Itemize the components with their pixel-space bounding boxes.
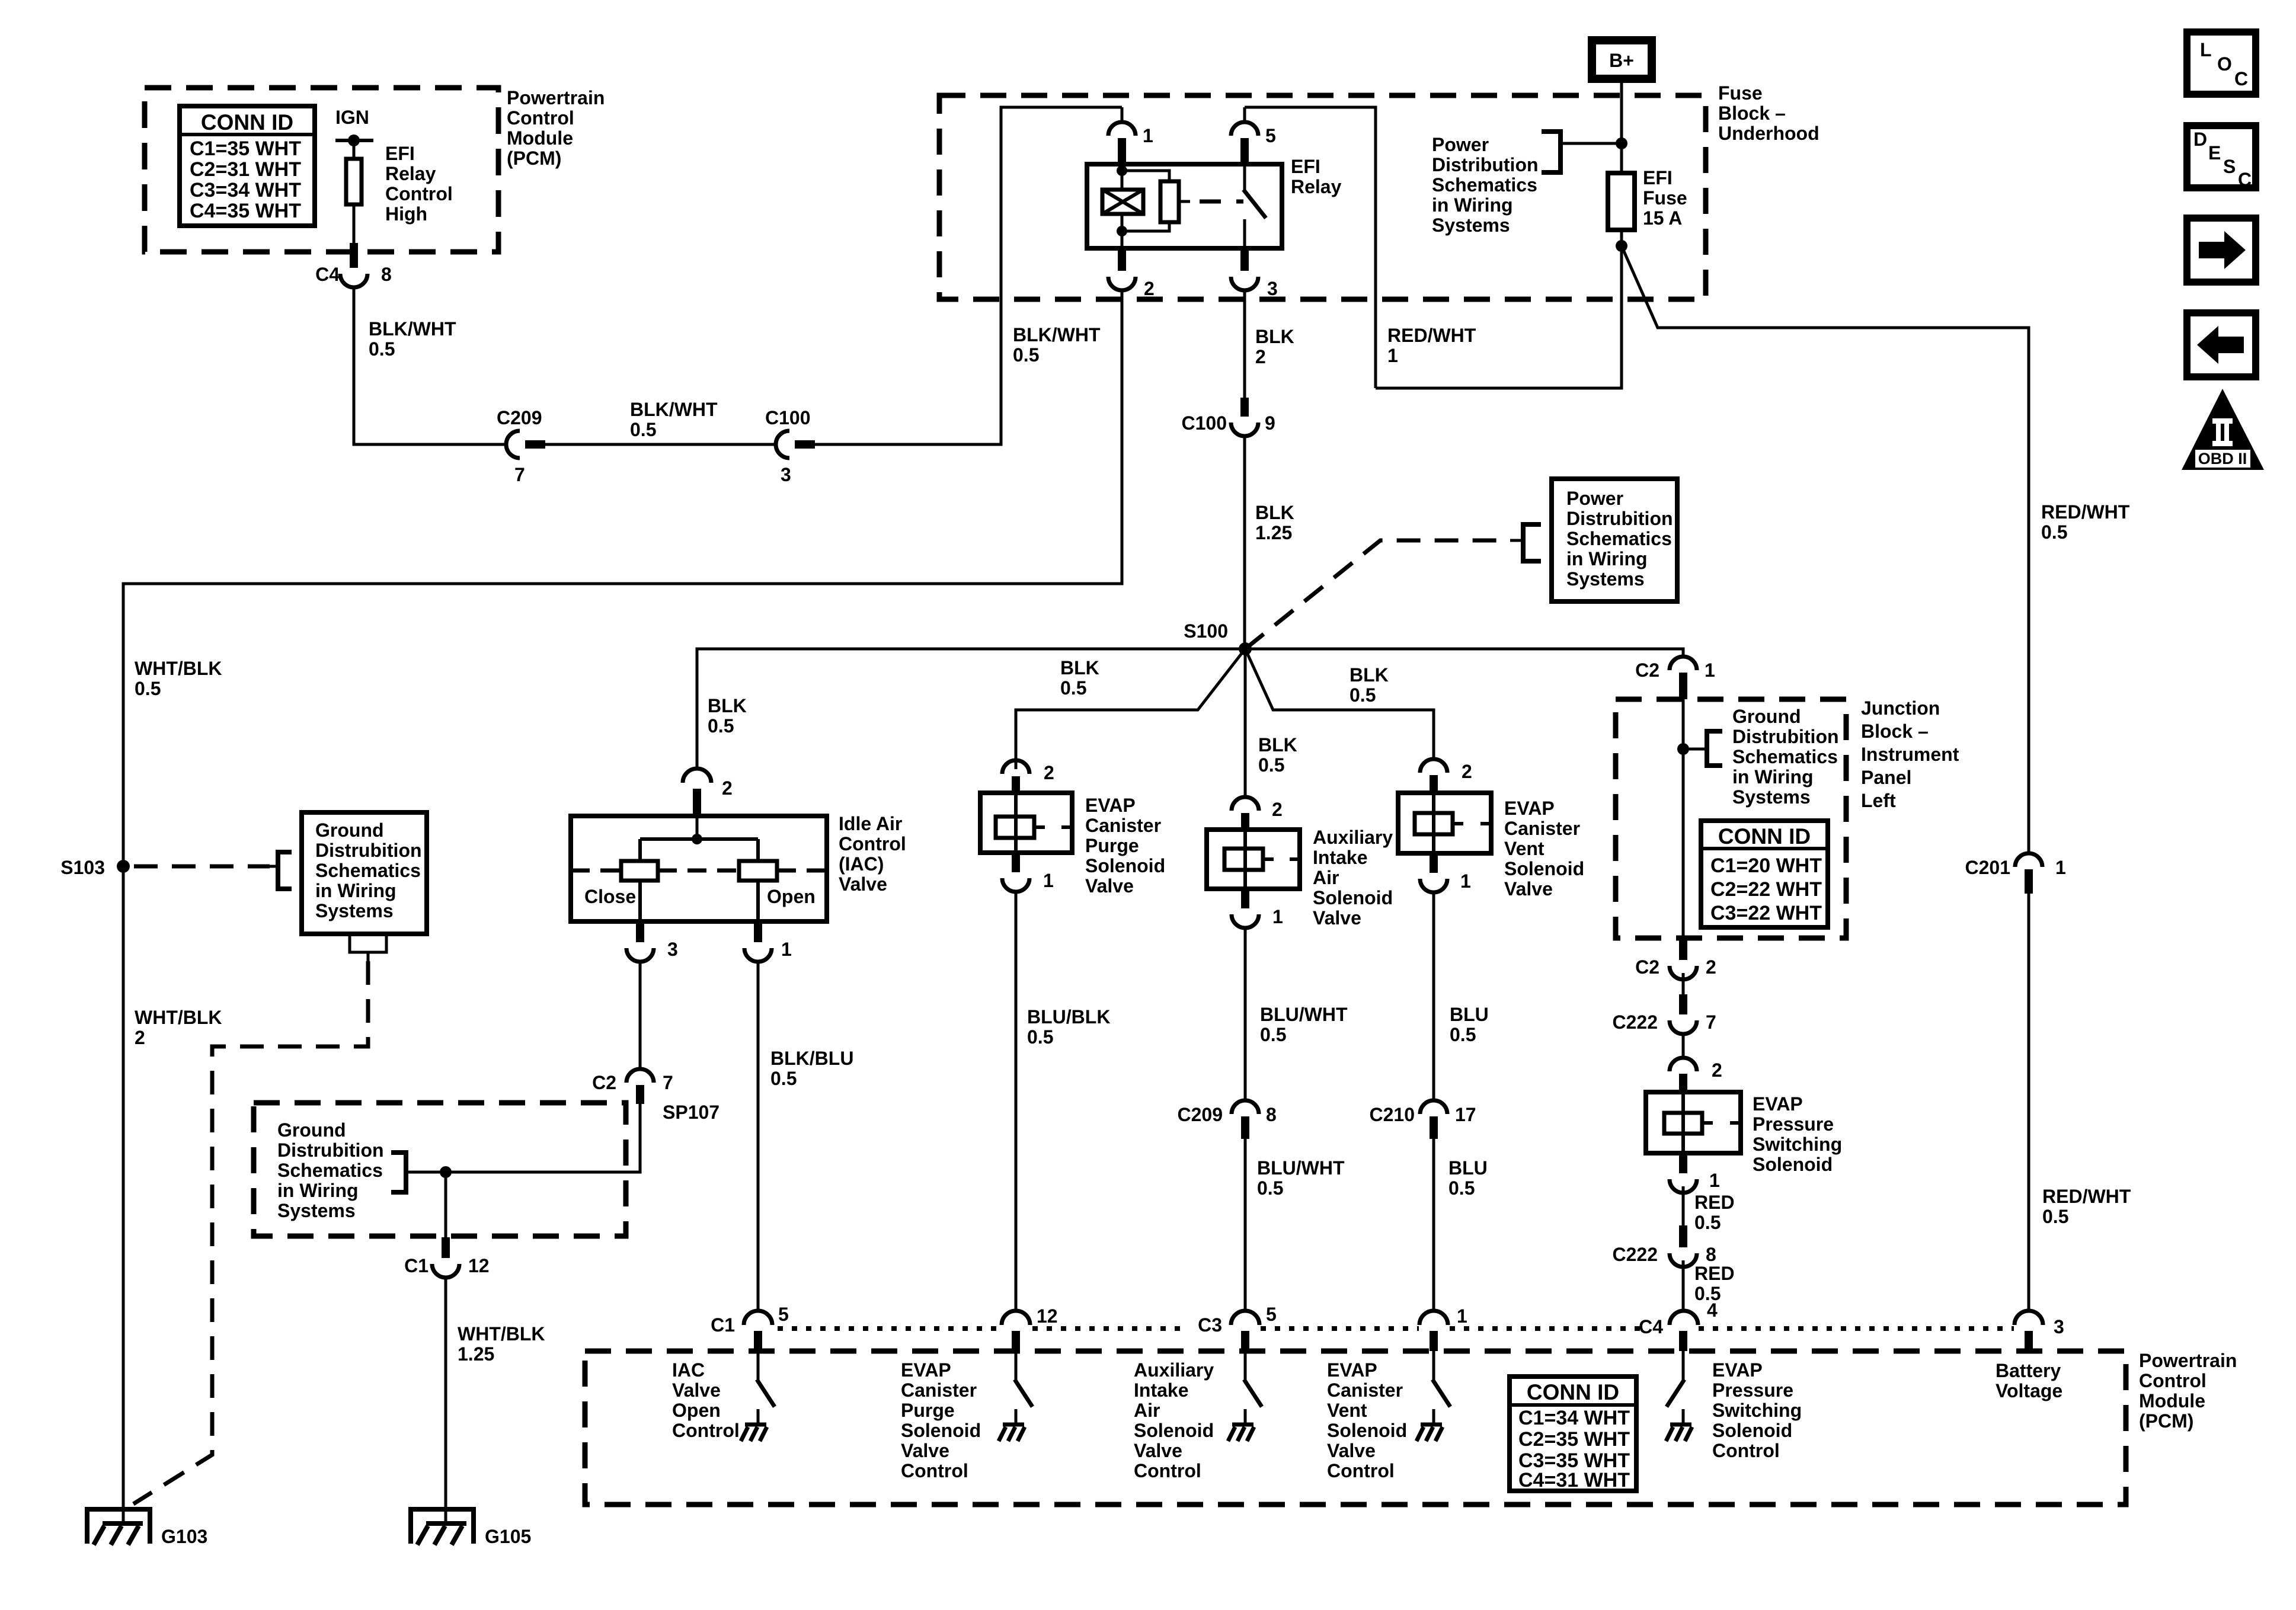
svg-text:Solenoid: Solenoid <box>1313 887 1393 908</box>
svg-text:Control: Control <box>1327 1460 1395 1481</box>
svg-text:IAC: IAC <box>672 1359 705 1381</box>
EFI Relay Control High label <box>385 143 453 225</box>
Idle Air Control (IAC) Valve box <box>571 816 827 921</box>
svg-text:4: 4 <box>1707 1299 1718 1321</box>
svg-text:Relay: Relay <box>1291 176 1342 197</box>
svg-text:3: 3 <box>1267 278 1278 299</box>
svg-text:BLK: BLK <box>708 695 747 716</box>
svg-text:C2=22 WHT: C2=22 WHT <box>1710 878 1822 901</box>
svg-text:S100: S100 <box>1184 620 1228 642</box>
svg-text:Intake: Intake <box>1313 847 1367 868</box>
svg-text:C4=31 WHT: C4=31 WHT <box>1518 1469 1630 1491</box>
BLU/WHT 0.5 label (lower) <box>1257 1157 1345 1199</box>
svg-text:1: 1 <box>1387 345 1398 366</box>
ground (EVAP pressure driver) <box>1666 1425 1692 1441</box>
relay coil (crossed box) <box>1102 190 1143 214</box>
svg-text:EFI: EFI <box>385 143 415 164</box>
svg-text:Distrubition: Distrubition <box>277 1140 384 1161</box>
svg-text:in Wiring: in Wiring <box>277 1180 359 1201</box>
svg-text:in Wiring: in Wiring <box>315 880 396 901</box>
svg-text:BLK/BLU: BLK/BLU <box>770 1048 853 1069</box>
right-arrow icon box <box>2187 218 2256 282</box>
svg-text:Systems: Systems <box>1732 786 1811 808</box>
svg-text:BLU: BLU <box>1450 1004 1489 1025</box>
PCM label (bottom right) <box>2139 1350 2237 1432</box>
RED/WHT 1 label <box>1387 325 1476 366</box>
relay pin 1 connector <box>1121 107 1124 123</box>
wire vent pin1 down <box>1432 892 1435 1101</box>
svg-text:Systems: Systems <box>277 1200 356 1221</box>
wire C100-9 to S100 (BLK 1.25) <box>1243 436 1246 649</box>
svg-text:Switching: Switching <box>1712 1400 1802 1421</box>
svg-text:0.5: 0.5 <box>2041 521 2067 543</box>
bracket for ground note (S103) <box>270 865 278 868</box>
connector C222 pin 8 <box>1679 1225 1687 1247</box>
svg-text:IGN: IGN <box>335 107 369 128</box>
wire RED/WHT 1 loop to fuse output <box>1376 246 1622 388</box>
wire C4-8 down to C209 run <box>354 287 506 444</box>
BLU 0.5 label (upper) <box>1450 1004 1489 1045</box>
svg-text:BLU/WHT: BLU/WHT <box>1260 1004 1348 1025</box>
wire IGN to driver resistor <box>353 140 356 159</box>
connector C210 pin 17 <box>1420 1100 1447 1114</box>
connector C2 pin 7 <box>626 1069 654 1083</box>
svg-text:BLK: BLK <box>1258 734 1297 756</box>
svg-text:0.5: 0.5 <box>369 338 395 360</box>
svg-text:Air: Air <box>1313 867 1339 888</box>
svg-text:C1: C1 <box>404 1255 428 1276</box>
svg-text:2: 2 <box>1255 346 1266 367</box>
svg-text:Valve: Valve <box>839 873 887 895</box>
svg-text:Close: Close <box>584 886 636 907</box>
svg-text:Solenoid: Solenoid <box>1753 1154 1833 1175</box>
wire S100 vent branch <box>1245 649 1434 759</box>
svg-text:Block –: Block – <box>1718 103 1786 124</box>
svg-text:Valve: Valve <box>1313 907 1361 929</box>
svg-text:Control: Control <box>839 833 906 854</box>
svg-text:C2=31 WHT: C2=31 WHT <box>190 158 301 181</box>
svg-text:0.5: 0.5 <box>1013 344 1039 366</box>
svg-text:BLK: BLK <box>1350 664 1389 686</box>
wire S100 purge branch <box>1016 649 1245 769</box>
EVAP Canister Vent Solenoid Valve Control label <box>1327 1359 1407 1481</box>
svg-text:C2=35 WHT: C2=35 WHT <box>1518 1428 1630 1451</box>
svg-text:C100: C100 <box>1182 412 1227 434</box>
svg-text:Block –: Block – <box>1861 721 1929 742</box>
Power Distrubition note box (S100) <box>1552 479 1677 601</box>
svg-text:2: 2 <box>1712 1060 1722 1081</box>
svg-text:Systems: Systems <box>315 900 394 921</box>
svg-text:1: 1 <box>2055 857 2066 878</box>
svg-text:EVAP: EVAP <box>1712 1359 1763 1381</box>
svg-text:Vent: Vent <box>1504 838 1544 859</box>
svg-text:2: 2 <box>1144 278 1155 299</box>
svg-text:Vent: Vent <box>1327 1400 1367 1421</box>
svg-text:0.5: 0.5 <box>1350 684 1376 706</box>
svg-text:Canister: Canister <box>901 1379 977 1401</box>
svg-text:CONN ID: CONN ID <box>201 110 293 135</box>
wire C209-8 to PCM C3-5 <box>1244 1139 1247 1311</box>
BLU 0.5 label (lower) <box>1448 1157 1488 1199</box>
bracket for ground note (junction block) <box>1683 748 1707 751</box>
BLU/WHT 0.5 label (upper) <box>1260 1004 1348 1045</box>
svg-text:0.5: 0.5 <box>1450 1024 1476 1045</box>
PCM pin 3 connector (battery voltage) <box>2014 1311 2043 1325</box>
PCM label (top-left) <box>507 87 605 169</box>
svg-text:BLK/WHT: BLK/WHT <box>1013 324 1101 345</box>
RED/WHT 0.5 label (upper right) <box>2041 501 2130 543</box>
WHT/BLK 2 label <box>135 1007 222 1048</box>
PCM pin C3-1 connector <box>1419 1311 1448 1325</box>
svg-text:C201: C201 <box>1965 857 2011 878</box>
svg-text:8: 8 <box>381 264 392 285</box>
PCM pin C1-12 connector <box>1002 1311 1030 1325</box>
svg-text:Distrubition: Distrubition <box>315 840 422 861</box>
wire resistor to C4 pin 8 <box>353 204 356 243</box>
svg-text:Control: Control <box>1134 1460 1201 1481</box>
wire C209 to C100 <box>545 443 776 446</box>
Powertrain Control Module (PCM) top-left dashed box <box>145 88 498 252</box>
svg-text:0.5: 0.5 <box>1257 1177 1283 1199</box>
svg-text:EVAP: EVAP <box>1327 1359 1377 1381</box>
node junction block splice <box>1677 743 1689 755</box>
svg-text:EFI: EFI <box>1291 156 1320 177</box>
LOC icon box <box>2187 32 2256 94</box>
svg-text:Schematics: Schematics <box>1566 528 1672 549</box>
svg-text:C4=35 WHT: C4=35 WHT <box>190 200 301 222</box>
svg-text:Instrument: Instrument <box>1861 744 1959 765</box>
Auxiliary Intake Air Solenoid Valve box <box>1207 830 1300 889</box>
svg-text:0.5: 0.5 <box>1694 1212 1721 1233</box>
svg-text:Canister: Canister <box>1504 818 1580 839</box>
aux intake solenoid pin 2 connector <box>1232 797 1259 811</box>
CONN ID table (bottom PCM) <box>1510 1377 1636 1491</box>
svg-text:Voltage: Voltage <box>1996 1380 2062 1401</box>
svg-text:9: 9 <box>1265 412 1275 434</box>
IAC valve pin 2 connector <box>683 769 711 783</box>
svg-text:EVAP: EVAP <box>1753 1093 1803 1115</box>
svg-text:Power: Power <box>1566 488 1623 509</box>
svg-text:15 A: 15 A <box>1643 207 1682 229</box>
node S100 <box>1239 642 1252 655</box>
ground G103 <box>85 1509 152 1545</box>
svg-text:RED: RED <box>1694 1263 1735 1284</box>
svg-text:1: 1 <box>781 939 792 960</box>
svg-text:RED/WHT: RED/WHT <box>1387 325 1476 346</box>
svg-text:Powertrain: Powertrain <box>2139 1350 2237 1371</box>
PCM pin C1-5 connector <box>744 1311 772 1325</box>
EVAP pressure switching solenoid pin 2 connector <box>1670 1058 1697 1071</box>
BLK/WHT 0.5 label (C209 to C100) <box>630 399 718 440</box>
svg-text:0.5: 0.5 <box>1260 1024 1286 1045</box>
svg-text:G105: G105 <box>485 1526 531 1547</box>
svg-text:Solenoid: Solenoid <box>1085 855 1165 876</box>
svg-text:C4: C4 <box>1639 1316 1663 1337</box>
wire C2-1 through junction block <box>1682 699 1685 938</box>
Auxiliary Intake Air Solenoid Valve Control label <box>1134 1359 1214 1481</box>
svg-text:Systems: Systems <box>1432 215 1510 236</box>
svg-text:0.5: 0.5 <box>1060 677 1086 699</box>
svg-text:Idle Air: Idle Air <box>839 813 902 834</box>
svg-text:Ground: Ground <box>1732 706 1801 727</box>
svg-text:C2: C2 <box>1635 956 1659 978</box>
svg-text:0.5: 0.5 <box>770 1068 797 1089</box>
CONN ID table (PCM top-left) <box>180 106 315 226</box>
svg-text:Solenoid: Solenoid <box>901 1420 981 1441</box>
svg-text:G103: G103 <box>161 1526 207 1547</box>
svg-text:5: 5 <box>1266 1304 1277 1325</box>
svg-text:Open: Open <box>672 1400 721 1421</box>
connector C1 pin 12 <box>442 1237 450 1258</box>
CONN ID table (junction block) <box>1701 821 1828 927</box>
PCM driver switch (purge) <box>1015 1351 1018 1381</box>
wire IAC pin3 to C2-7 <box>639 961 642 1070</box>
wire fuse output diagonal to right margin (RED/WHT 0.5) <box>1622 246 2029 853</box>
connector C4 pin 8 (PCM) <box>350 243 358 268</box>
svg-text:7: 7 <box>1706 1012 1716 1033</box>
svg-text:CONN ID: CONN ID <box>1527 1380 1619 1404</box>
svg-text:17: 17 <box>1455 1104 1476 1125</box>
svg-text:Fuse: Fuse <box>1643 187 1687 209</box>
svg-text:Control: Control <box>1712 1440 1780 1461</box>
EVAP purge solenoid pin 2 connector <box>1002 760 1029 774</box>
svg-text:1.25: 1.25 <box>1255 522 1292 543</box>
svg-text:RED/WHT: RED/WHT <box>2041 501 2130 523</box>
svg-text:1: 1 <box>1709 1170 1720 1191</box>
linkage dash <box>1200 200 1221 204</box>
ground (aux intake driver) <box>1228 1425 1254 1441</box>
svg-text:(PCM): (PCM) <box>2139 1410 2193 1432</box>
svg-text:2: 2 <box>722 777 733 799</box>
PCM pin C3-5 connector <box>1231 1311 1259 1325</box>
PCM driver switch (EVAP pressure) <box>1682 1351 1685 1381</box>
svg-text:Valve: Valve <box>1085 875 1134 897</box>
bracket for ground note (SP107) <box>391 1153 406 1192</box>
BLK/WHT 0.5 label (PCM to C209) <box>369 318 456 360</box>
svg-text:Relay: Relay <box>385 163 436 184</box>
svg-text:C3=22 WHT: C3=22 WHT <box>1710 902 1822 924</box>
connector C100 pin 3 (in-line, horizontal) <box>776 431 789 458</box>
svg-text:BLK/WHT: BLK/WHT <box>369 318 456 340</box>
IAC Open coil <box>739 861 777 881</box>
EFI Relay solid box <box>1087 164 1282 248</box>
svg-text:C: C <box>2238 169 2252 190</box>
svg-text:Valve: Valve <box>901 1440 949 1461</box>
IAC Valve Open Control label <box>672 1359 740 1441</box>
svg-text:Auxiliary: Auxiliary <box>1313 827 1393 848</box>
svg-text:C210: C210 <box>1370 1104 1415 1125</box>
bracket for power distribution note <box>1542 132 1560 172</box>
svg-text:C222: C222 <box>1613 1012 1658 1033</box>
svg-text:2: 2 <box>1272 799 1283 820</box>
svg-text:Pressure: Pressure <box>1712 1379 1793 1401</box>
svg-text:WHT/BLK: WHT/BLK <box>135 1007 222 1028</box>
svg-text:BLU: BLU <box>1448 1157 1488 1179</box>
Ground Distrubition note box (S103) <box>302 812 427 934</box>
Fuse Block - Underhood label <box>1718 82 1819 144</box>
wire S100 left branch to IAC <box>697 649 1245 769</box>
relay internal resistor branch <box>1122 171 1169 181</box>
dashed tie S100 to power distribution note <box>1245 540 1510 649</box>
IAC coil leads <box>638 881 642 921</box>
WHT/BLK 1.25 label <box>458 1323 545 1365</box>
svg-text:Intake: Intake <box>1134 1379 1188 1401</box>
svg-text:B+: B+ <box>1609 50 1634 71</box>
wire C210-17 to PCM pin 1 <box>1432 1139 1435 1311</box>
svg-text:1: 1 <box>1460 870 1471 892</box>
svg-text:C1=34 WHT: C1=34 WHT <box>1518 1407 1630 1429</box>
svg-text:0.5: 0.5 <box>1448 1177 1475 1199</box>
node: fuse input junction <box>1616 137 1627 149</box>
svg-text:12: 12 <box>468 1255 490 1276</box>
svg-text:Valve: Valve <box>1327 1440 1376 1461</box>
svg-text:3: 3 <box>781 464 791 485</box>
Power Distribution Schematics note (fuse block) <box>1432 134 1539 236</box>
connector C2 pin 1 <box>1670 657 1697 670</box>
svg-text:WHT/BLK: WHT/BLK <box>135 658 222 679</box>
wire C222-8 to PCM C4-4 (RED 0.5) <box>1682 1260 1685 1311</box>
IAC linkage dashes <box>571 869 621 873</box>
svg-text:C2: C2 <box>592 1072 616 1093</box>
Junction Block dashed box <box>1616 699 1846 938</box>
BLK/WHT 0.5 label (relay pin 2) <box>1013 324 1101 366</box>
wire S103 down to G103 <box>122 866 125 1523</box>
svg-text:12: 12 <box>1037 1305 1058 1327</box>
svg-text:BLK: BLK <box>1255 326 1294 347</box>
wire C100 right and up into relay box to pin 1 <box>815 107 1122 444</box>
svg-text:Valve: Valve <box>672 1379 721 1401</box>
svg-text:C1=20 WHT: C1=20 WHT <box>1710 854 1822 877</box>
svg-text:Purge: Purge <box>1085 835 1139 856</box>
svg-text:BLK/WHT: BLK/WHT <box>630 399 718 420</box>
svg-text:Canister: Canister <box>1327 1379 1403 1401</box>
svg-text:Canister: Canister <box>1085 815 1161 836</box>
svg-text:3: 3 <box>2054 1316 2064 1337</box>
svg-text:S: S <box>2223 156 2236 177</box>
EVAP vent solenoid pin 1 connector <box>1430 853 1438 873</box>
Battery Voltage label <box>1996 1360 2062 1401</box>
svg-text:Ground: Ground <box>315 820 384 841</box>
WHT/BLK 0.5 label (left margin) <box>135 658 222 699</box>
SP107 dashed box <box>254 1103 626 1236</box>
ground G105 <box>408 1509 476 1545</box>
EVAP Pressure Switching Solenoid box <box>1646 1092 1741 1153</box>
wire IAC pin1 to PCM C1-5 <box>757 961 760 1311</box>
BLK 0.5 label (IAC branch) <box>708 695 747 737</box>
svg-text:Fuse: Fuse <box>1718 82 1763 104</box>
svg-text:CONN ID: CONN ID <box>1718 824 1811 849</box>
svg-text:Solenoid: Solenoid <box>1504 858 1584 879</box>
svg-text:Purge: Purge <box>901 1400 955 1421</box>
EVAP pressure switching solenoid pin 1 connector <box>1679 1153 1687 1173</box>
svg-text:Systems: Systems <box>1566 568 1645 590</box>
svg-text:0.5: 0.5 <box>630 419 656 440</box>
node SP107 splice <box>440 1166 452 1178</box>
svg-text:2: 2 <box>1706 956 1716 978</box>
svg-text:Junction: Junction <box>1861 697 1940 719</box>
wire relay pin2 down-left to S103 column <box>123 290 1122 866</box>
EFI relay control driver (resistor symbol) <box>346 159 362 204</box>
svg-text:C222: C222 <box>1613 1244 1658 1265</box>
svg-text:in Wiring: in Wiring <box>1566 548 1648 569</box>
svg-text:SP107: SP107 <box>663 1102 720 1123</box>
BLK 0.5 label (vent branch) <box>1350 664 1389 706</box>
svg-text:OBD II: OBD II <box>2198 450 2247 468</box>
svg-text:WHT/BLK: WHT/BLK <box>458 1323 545 1345</box>
relay coil branch <box>1121 164 1124 190</box>
svg-text:Solenoid: Solenoid <box>1327 1420 1407 1441</box>
Relay / fuse block outer dashed box <box>939 95 1706 299</box>
svg-text:5: 5 <box>778 1304 789 1325</box>
svg-text:Distrubition: Distrubition <box>1566 508 1673 529</box>
wire S100 aux intake branch <box>1244 649 1247 797</box>
wire S100 right branch to junction block <box>1245 649 1683 658</box>
svg-text:E: E <box>2208 142 2221 164</box>
svg-text:2: 2 <box>135 1027 145 1048</box>
connector C209 pin 8 <box>1232 1100 1259 1114</box>
svg-text:1: 1 <box>1457 1305 1467 1327</box>
svg-text:Control: Control <box>385 183 453 204</box>
ground (purge driver) <box>999 1425 1025 1441</box>
svg-text:EVAP: EVAP <box>1504 798 1555 819</box>
svg-text:Air: Air <box>1134 1400 1160 1421</box>
svg-text:Distrubition: Distrubition <box>1732 726 1839 747</box>
BLU/BLK 0.5 label <box>1027 1006 1110 1048</box>
resistor output tick <box>1179 200 1190 203</box>
svg-text:EFI: EFI <box>1643 167 1673 188</box>
svg-text:Power: Power <box>1432 134 1489 155</box>
dashed run from note box to G103 <box>133 961 368 1504</box>
svg-text:1: 1 <box>1143 125 1153 146</box>
svg-text:Distribution: Distribution <box>1432 154 1539 175</box>
bracket below ground note box <box>350 934 386 952</box>
wire relay pin3 down (BLK 2) <box>1243 290 1246 398</box>
svg-text:High: High <box>385 203 427 225</box>
svg-text:1.25: 1.25 <box>458 1343 494 1365</box>
svg-text:EVAP: EVAP <box>901 1359 951 1381</box>
EFI Relay label <box>1291 156 1342 197</box>
svg-text:Underhood: Underhood <box>1718 123 1819 144</box>
connector C100 pin 9 (BLK feed) <box>1240 398 1249 417</box>
BLK 2 label <box>1255 326 1294 367</box>
EVAP Canister Vent Solenoid Valve box <box>1398 793 1491 853</box>
svg-text:Valve: Valve <box>1504 878 1553 900</box>
svg-text:C2: C2 <box>1635 660 1659 681</box>
wire C201 down to PCM pin 3 <box>2028 894 2030 1311</box>
Junction Block - Instrument Panel Left label <box>1861 697 1959 811</box>
svg-text:Pressure: Pressure <box>1753 1113 1834 1135</box>
svg-text:Panel: Panel <box>1861 767 1911 788</box>
EVAP Pressure Switching Solenoid Control label <box>1712 1359 1802 1461</box>
DESC icon box <box>2187 126 2256 188</box>
svg-text:8: 8 <box>1706 1244 1716 1265</box>
connector C201 pin 1 <box>2015 853 2042 867</box>
svg-text:2: 2 <box>1044 762 1054 783</box>
svg-text:Control: Control <box>672 1420 740 1441</box>
relay pin 2 connector <box>1118 248 1126 271</box>
svg-text:C1=35 WHT: C1=35 WHT <box>190 137 301 160</box>
relay pin 5 connector <box>1243 107 1246 123</box>
svg-text:Left: Left <box>1861 790 1896 811</box>
svg-text:7: 7 <box>514 464 525 485</box>
Ground Distrubition note text (SP107 box) <box>277 1119 384 1221</box>
IAC pin 1 connector <box>754 921 762 942</box>
IAC Close coil <box>621 861 658 881</box>
node: fuse output junction <box>1620 230 1623 246</box>
svg-text:BLU/BLK: BLU/BLK <box>1027 1006 1110 1028</box>
dotted connector tie line <box>778 1326 2014 1331</box>
bracket for power distribution note (S100) <box>1510 539 1523 542</box>
